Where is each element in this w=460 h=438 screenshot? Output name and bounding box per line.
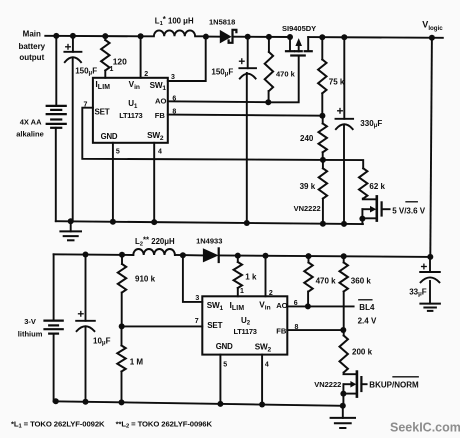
svg-text:3: 3: [171, 74, 175, 81]
svg-text:2: 2: [269, 290, 273, 297]
svg-text:AO: AO: [155, 96, 166, 105]
svg-text:AO: AO: [276, 301, 287, 310]
svg-text:470 k: 470 k: [276, 70, 296, 79]
svg-text:Main: Main: [23, 29, 41, 38]
svg-text:GND: GND: [101, 132, 118, 141]
svg-text:output: output: [19, 53, 44, 62]
svg-text:SET: SET: [95, 107, 110, 116]
svg-text:3-V: 3-V: [24, 317, 36, 326]
svg-text:150μF: 150μF: [211, 68, 233, 78]
svg-text:1: 1: [240, 288, 244, 295]
svg-text:39 k: 39 k: [300, 182, 316, 191]
svg-text:BKUP/NORM: BKUP/NORM: [369, 381, 419, 390]
svg-text:33μF: 33μF: [409, 288, 427, 298]
svg-text:LT1173: LT1173: [119, 111, 142, 120]
svg-text:VN2222: VN2222: [314, 380, 341, 389]
svg-text:5 V/3.6 V: 5 V/3.6 V: [392, 207, 426, 216]
svg-text:200 k: 200 k: [352, 348, 373, 357]
svg-text:3: 3: [195, 295, 199, 302]
svg-text:360 k: 360 k: [351, 277, 372, 286]
svg-text:SET: SET: [207, 321, 222, 330]
svg-text:2: 2: [144, 71, 148, 78]
svg-text:4: 4: [158, 149, 162, 156]
svg-text:7: 7: [195, 318, 199, 325]
svg-text:alkaline: alkaline: [16, 129, 44, 138]
svg-text:5: 5: [116, 149, 120, 156]
svg-text:1 k: 1 k: [245, 273, 257, 282]
svg-text:GND: GND: [216, 342, 233, 351]
svg-text:6: 6: [294, 300, 298, 307]
svg-text:BL4: BL4: [359, 303, 375, 312]
svg-text:470 k: 470 k: [316, 277, 337, 286]
svg-text:4X AA: 4X AA: [20, 118, 42, 127]
svg-text:FB: FB: [155, 111, 166, 120]
svg-text:2.4 V: 2.4 V: [358, 317, 377, 326]
svg-text:7: 7: [84, 102, 88, 109]
svg-text:1N5818: 1N5818: [209, 18, 235, 27]
svg-text:1 M: 1 M: [130, 358, 144, 367]
svg-text:10μF: 10μF: [93, 337, 111, 347]
svg-text:5: 5: [223, 361, 227, 368]
svg-text:8: 8: [172, 109, 176, 116]
svg-text:LT1173: LT1173: [234, 327, 257, 336]
svg-text:150μF: 150μF: [75, 67, 97, 77]
svg-text:240: 240: [300, 134, 314, 143]
svg-text:VN2222: VN2222: [294, 204, 321, 213]
svg-text:1: 1: [110, 66, 114, 73]
svg-text:330μF: 330μF: [360, 119, 382, 129]
svg-text:battery: battery: [18, 42, 45, 51]
svg-text:75 k: 75 k: [329, 78, 345, 87]
svg-text:lithium: lithium: [18, 330, 43, 339]
svg-text:SeekIC.com: SeekIC.com: [390, 421, 460, 435]
svg-text:*L1 = TOKO 262LYF-0092K: *L1 = TOKO 262LYF-0092K: [11, 419, 105, 429]
svg-text:**L2 = TOKO 262LYF-0096K: **L2 = TOKO 262LYF-0096K: [116, 419, 213, 429]
svg-text:4: 4: [265, 361, 269, 368]
svg-text:1N4933: 1N4933: [196, 237, 222, 246]
svg-text:FB: FB: [276, 327, 287, 336]
svg-text:910 k: 910 k: [135, 275, 156, 284]
svg-text:SI9405DY: SI9405DY: [282, 24, 316, 33]
svg-text:8: 8: [294, 324, 298, 331]
svg-text:6: 6: [172, 95, 176, 102]
svg-text:120: 120: [113, 57, 127, 67]
svg-text:62 k: 62 k: [369, 182, 385, 191]
